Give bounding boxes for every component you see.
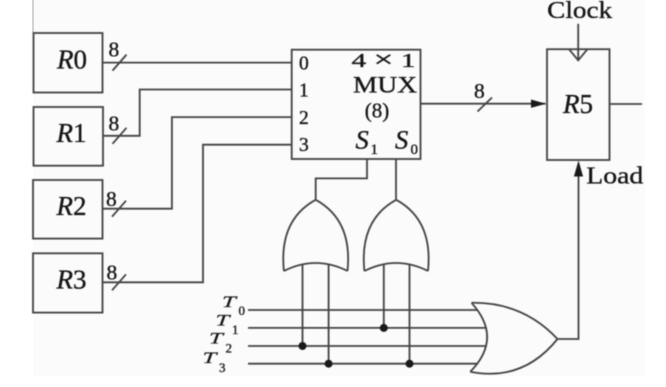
bus slash R2 <box>112 201 126 217</box>
wire mux output to R5 <box>421 103 546 105</box>
arrowhead into R5 data <box>531 100 546 108</box>
svg-text:1: 1 <box>232 322 239 337</box>
wire G1 input a to node T2 <box>302 265 304 346</box>
wire R1 to mux input 1 <box>103 90 292 136</box>
OR gate G2 (select S0) <box>364 200 429 271</box>
wire G1 input b to node T3 <box>328 265 330 364</box>
svg-text:3: 3 <box>219 360 226 375</box>
wire T0 line <box>248 309 477 311</box>
OR gate G1 (select S1) <box>283 200 348 271</box>
svg-text:1: 1 <box>371 142 379 158</box>
svg-text:8: 8 <box>109 38 120 62</box>
svg-text:0: 0 <box>239 303 246 318</box>
wire R5 output <box>610 103 643 105</box>
svg-text:S: S <box>356 124 369 154</box>
svg-text:R2: R2 <box>56 191 87 221</box>
wire T1 line <box>248 327 486 329</box>
wire S1 from mux to OR gate G1 <box>316 159 367 200</box>
mux U1 box <box>292 50 421 159</box>
junction node T1/G2a <box>380 324 388 332</box>
register R0 box <box>34 33 103 93</box>
svg-text:2: 2 <box>299 108 309 129</box>
svg-text:R5: R5 <box>562 89 593 119</box>
svg-text:R1: R1 <box>56 118 87 148</box>
wire R0 to mux input 0 <box>103 62 292 64</box>
wire T2 line <box>248 345 487 347</box>
bus slash R0 <box>113 55 127 71</box>
arrowhead load into R5 <box>574 161 583 177</box>
bus slash mux output <box>478 98 493 112</box>
register R1 box <box>34 107 104 166</box>
svg-text:R0: R0 <box>56 45 87 75</box>
junction node T2/G1a <box>299 342 307 350</box>
svg-text:S: S <box>395 124 408 154</box>
svg-text:8: 8 <box>106 187 117 211</box>
OR gate G3 (load) <box>470 303 557 374</box>
wire G3 output to R5 load <box>558 172 579 339</box>
wire clock input <box>577 24 579 60</box>
svg-text:2: 2 <box>226 340 233 355</box>
svg-text:8: 8 <box>107 261 118 285</box>
svg-text:8: 8 <box>109 112 120 136</box>
svg-text:Load: Load <box>586 164 643 190</box>
wire T3 line <box>248 363 478 365</box>
svg-text:MUX: MUX <box>353 73 417 99</box>
wire S0 from mux to OR gate G2 <box>395 159 397 200</box>
bus slash R1 <box>113 128 127 144</box>
junction node T3/G1b <box>325 360 333 368</box>
bus slash R3 <box>112 274 126 290</box>
wire G2 input b to node T3 <box>409 265 411 364</box>
junction node T3/G2b <box>406 360 414 368</box>
register R3 box <box>33 253 103 312</box>
svg-text:0: 0 <box>299 54 309 75</box>
wire R2 to mux input 2 <box>103 117 292 209</box>
register R5 box <box>547 49 610 160</box>
wire R3 to mux input 3 <box>103 145 292 283</box>
svg-text:Clock: Clock <box>547 0 612 24</box>
svg-text:8: 8 <box>474 79 485 103</box>
wire G2 input a to node T1 <box>383 265 385 328</box>
register R2 box <box>33 180 103 239</box>
svg-text:4 × 1: 4 × 1 <box>352 47 416 73</box>
svg-text:1: 1 <box>299 81 309 102</box>
svg-text:(8): (8) <box>365 99 390 123</box>
svg-text:3: 3 <box>299 135 309 156</box>
clock wedge on R5 <box>569 49 588 60</box>
svg-text:0: 0 <box>411 142 419 158</box>
svg-text:R3: R3 <box>56 265 87 295</box>
scan crop edge top-left <box>32 0 34 33</box>
